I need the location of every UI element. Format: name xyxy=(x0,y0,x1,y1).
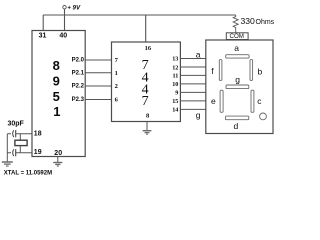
decimal point DP xyxy=(260,113,267,120)
svg-text:20: 20 xyxy=(54,150,62,157)
svg-text:g: g xyxy=(235,74,240,84)
svg-text:g: g xyxy=(196,110,201,120)
svg-text:c: c xyxy=(257,96,262,106)
segment f xyxy=(211,60,222,81)
svg-text:1: 1 xyxy=(115,70,118,77)
svg-text:16: 16 xyxy=(145,45,152,52)
svg-text:2: 2 xyxy=(115,83,118,90)
svg-text:330: 330 xyxy=(241,16,256,26)
wire pin20 to ground xyxy=(57,157,59,163)
svg-text:P2.3: P2.3 xyxy=(72,97,85,103)
wire P2.0 xyxy=(85,59,111,61)
power terminal +9V xyxy=(63,5,81,12)
svg-text:d: d xyxy=(234,121,239,131)
wire pin8 to ground xyxy=(146,122,148,131)
segment a xyxy=(226,43,249,58)
wire segment-d net xyxy=(180,83,205,85)
svg-text:7: 7 xyxy=(142,94,149,109)
capacitor C1 xyxy=(11,130,16,137)
label 330 Ohms xyxy=(241,16,275,26)
wire P2.1 xyxy=(85,72,111,74)
svg-text:a: a xyxy=(234,43,239,53)
svg-text:30pF: 30pF xyxy=(8,121,25,128)
wire pin40 to +9V terminal xyxy=(64,9,66,31)
svg-text:1: 1 xyxy=(53,104,60,119)
crystal X1 xyxy=(15,134,27,153)
svg-text:14: 14 xyxy=(172,107,178,114)
ground (pin 20) xyxy=(53,163,62,167)
svg-text:P2.2: P2.2 xyxy=(72,84,85,90)
resistor R1 xyxy=(233,15,238,33)
svg-text:15: 15 xyxy=(172,98,178,105)
svg-text:10: 10 xyxy=(172,81,178,88)
microcontroller U1 8951 xyxy=(32,31,85,157)
segment c xyxy=(251,90,262,112)
wire segment-b net xyxy=(180,66,205,68)
COM terminal box xyxy=(226,33,248,40)
wire segment-e net xyxy=(180,91,205,93)
ground (capacitors) xyxy=(2,162,13,166)
segment g xyxy=(226,74,249,88)
wire P2.2 xyxy=(85,85,111,87)
svg-text:Ohms: Ohms xyxy=(256,19,275,26)
segment d xyxy=(225,116,248,131)
wire pin19 to capacitor C2 xyxy=(7,152,32,154)
svg-text:12: 12 xyxy=(172,64,178,71)
wire segment-f net xyxy=(180,100,205,102)
svg-text:5: 5 xyxy=(53,89,60,104)
svg-text:18: 18 xyxy=(34,130,42,137)
svg-text:+ 9V: + 9V xyxy=(67,5,81,12)
segment b xyxy=(250,60,263,81)
svg-text:COM: COM xyxy=(230,33,244,40)
wire P2.3 xyxy=(85,99,111,101)
wire pin18 to capacitor C1 xyxy=(7,133,32,135)
decoder U2 7447 xyxy=(112,42,181,122)
svg-text:a: a xyxy=(196,49,201,59)
wire pin31 to rail xyxy=(42,15,44,31)
svg-text:40: 40 xyxy=(59,32,67,39)
svg-text:P2.1: P2.1 xyxy=(72,70,85,76)
capacitor C2 xyxy=(11,149,16,156)
wire segment-g net xyxy=(180,108,205,110)
svg-text:9: 9 xyxy=(53,74,60,89)
wire +9V power rail xyxy=(43,14,236,16)
wire segment-a net xyxy=(180,58,205,60)
svg-text:P2.0: P2.0 xyxy=(72,58,85,64)
svg-text:XTAL = 11.0592M: XTAL = 11.0592M xyxy=(4,171,52,177)
svg-text:13: 13 xyxy=(172,56,178,63)
wire capacitor ground rail xyxy=(6,134,8,162)
ground (pin 8) xyxy=(143,131,152,135)
svg-text:8: 8 xyxy=(53,58,60,73)
svg-text:11: 11 xyxy=(173,73,179,80)
wire segment-c net xyxy=(180,74,205,76)
svg-text:b: b xyxy=(258,67,263,77)
display DS1 7-segment xyxy=(206,40,273,134)
wire pin16 to rail xyxy=(145,15,147,42)
svg-text:9: 9 xyxy=(175,90,178,97)
svg-text:e: e xyxy=(211,96,216,106)
segment e xyxy=(211,90,223,112)
svg-text:19: 19 xyxy=(34,149,42,156)
svg-text:31: 31 xyxy=(39,32,47,39)
